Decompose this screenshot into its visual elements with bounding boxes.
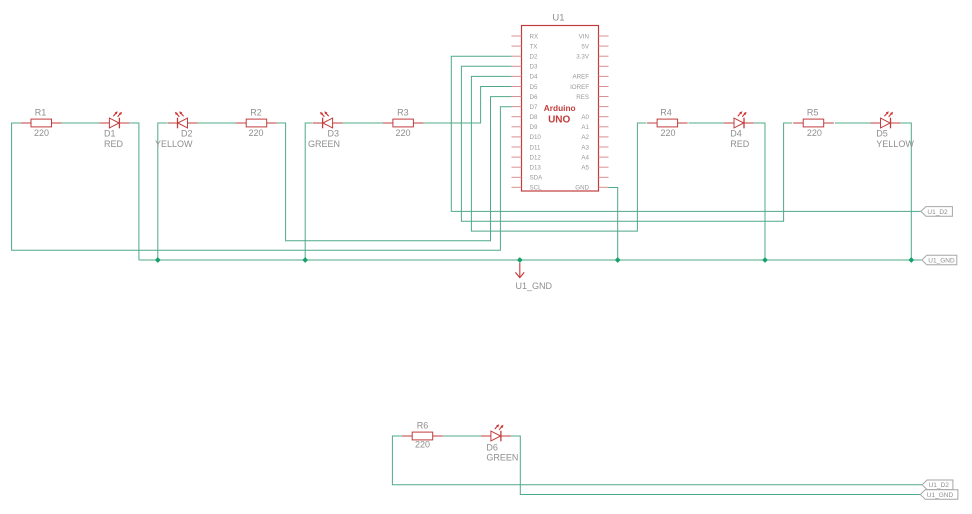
- wire D6 cathode to flag U1_GND: [510, 436, 920, 495]
- svg-text:220: 220: [415, 439, 430, 449]
- resistor R1: [21, 108, 62, 138]
- resistor R3: [383, 107, 424, 137]
- wire U1 GND pin to GND bus: [609, 188, 618, 261]
- net flag U1_D2 bottom right: [922, 480, 953, 490]
- svg-text:GND: GND: [575, 185, 589, 192]
- wire net D2 bottom: R6 left to flag U1_D2: [392, 436, 922, 485]
- svg-text:D11: D11: [530, 144, 541, 151]
- svg-text:D6: D6: [530, 94, 538, 101]
- LED D3 (GREEN): [308, 111, 343, 149]
- wire D3 anode to R3 left: [343, 122, 383, 124]
- svg-text:D3: D3: [530, 64, 538, 71]
- junction: U1 GND pin on GND bus: [615, 257, 621, 263]
- svg-text:D10: D10: [530, 134, 542, 141]
- wire R6 right to D6 anode: [443, 435, 481, 437]
- svg-text:RED: RED: [104, 139, 124, 149]
- svg-text:A0: A0: [581, 114, 589, 121]
- wire net D2: U1 pin D2 to flag U1_D2: [451, 56, 921, 211]
- wire GND bus: [139, 259, 921, 261]
- junction: GND symbol on GND bus: [517, 257, 523, 263]
- wire D1 cathode to GND bus: [129, 123, 139, 260]
- svg-text:R3: R3: [397, 107, 409, 117]
- svg-text:220: 220: [248, 128, 263, 138]
- wire D3 cathode to GND bus: [305, 123, 312, 260]
- svg-text:UNO: UNO: [548, 114, 570, 125]
- svg-text:D1: D1: [104, 129, 116, 139]
- svg-text:D4: D4: [530, 74, 538, 81]
- svg-text:YELLOW: YELLOW: [876, 139, 914, 149]
- svg-text:U1_GND: U1_GND: [927, 492, 954, 499]
- resistor R6: [402, 420, 443, 449]
- svg-text:RES: RES: [576, 94, 589, 101]
- svg-text:D7: D7: [530, 104, 538, 111]
- IC U1 Arduino UNO: [512, 12, 609, 191]
- svg-text:220: 220: [660, 128, 675, 138]
- svg-text:D2: D2: [530, 54, 538, 61]
- net flag U1_GND top right: [922, 255, 957, 265]
- svg-text:D9: D9: [530, 124, 538, 131]
- wire net D6: R2 right to U1 pin D6: [277, 97, 512, 241]
- junction: D4 cathode on GND bus: [762, 257, 768, 263]
- LED D1 (RED): [99, 111, 129, 149]
- svg-text:U1: U1: [552, 12, 564, 23]
- junction: D3 cathode on GND bus: [302, 257, 308, 263]
- svg-text:5V: 5V: [581, 43, 589, 50]
- svg-text:A4: A4: [581, 154, 589, 161]
- svg-text:A1: A1: [581, 124, 589, 131]
- LED D4 (RED): [724, 111, 754, 149]
- svg-text:D8: D8: [530, 114, 538, 121]
- wire R1 right to D1 anode: [61, 122, 99, 124]
- svg-text:D4: D4: [730, 129, 742, 139]
- LED D2 (YELLOW): [155, 111, 198, 149]
- wire net D7: R1 left to U1 pin D7: [12, 107, 512, 251]
- svg-text:R1: R1: [35, 108, 47, 118]
- svg-text:220: 220: [807, 128, 822, 138]
- svg-text:D3: D3: [328, 129, 340, 139]
- svg-text:220: 220: [395, 128, 410, 138]
- svg-text:D13: D13: [530, 165, 542, 172]
- svg-text:U1_D2: U1_D2: [927, 209, 948, 216]
- svg-text:D5: D5: [530, 84, 538, 91]
- svg-text:RX: RX: [530, 33, 539, 40]
- net flag U1_D2 top right: [921, 207, 953, 217]
- wire D5 cathode to GND bus: [900, 123, 911, 260]
- svg-text:A2: A2: [581, 134, 589, 141]
- svg-text:D2: D2: [181, 129, 193, 139]
- svg-text:R5: R5: [807, 107, 819, 117]
- svg-text:A5: A5: [581, 165, 589, 172]
- svg-text:D12: D12: [530, 154, 542, 161]
- wire R4 right to D4 anode: [689, 122, 725, 124]
- power symbol U1_GND (ground arrow): [515, 263, 552, 291]
- LED D6 (GREEN): [481, 424, 519, 463]
- wire net D5: R3 right to U1 pin D5: [424, 87, 512, 124]
- svg-text:D5: D5: [876, 129, 888, 139]
- svg-text:TX: TX: [530, 43, 538, 50]
- svg-text:SCL: SCL: [530, 185, 543, 192]
- resistor R2: [236, 107, 277, 137]
- wire net D3: U1 pin D3 to R5 left: [461, 66, 792, 221]
- resistor R4: [647, 107, 688, 138]
- LED D5 (YELLOW): [871, 111, 915, 149]
- svg-text:220: 220: [34, 128, 49, 138]
- svg-text:SDA: SDA: [530, 175, 544, 182]
- junction: D2 cathode on GND bus: [155, 257, 161, 263]
- svg-text:AREF: AREF: [572, 74, 589, 81]
- svg-text:U1_GND: U1_GND: [516, 281, 553, 291]
- svg-text:RED: RED: [730, 139, 750, 149]
- wire R5 right to D5 anode: [835, 122, 871, 124]
- wire D4 cathode to GND bus: [754, 123, 765, 260]
- resistor R5: [793, 107, 834, 138]
- junction: D5 cathode on GND bus: [908, 257, 914, 263]
- svg-text:IOREF: IOREF: [570, 84, 589, 91]
- svg-text:3.3V: 3.3V: [576, 54, 590, 61]
- svg-text:D6: D6: [486, 442, 498, 452]
- svg-text:R4: R4: [660, 107, 672, 117]
- svg-text:R2: R2: [250, 107, 262, 117]
- svg-text:GREEN: GREEN: [308, 139, 340, 149]
- svg-text:GREEN: GREEN: [486, 453, 518, 463]
- svg-text:VIN: VIN: [579, 33, 589, 40]
- wire D2 anode to R2 left: [198, 122, 237, 124]
- svg-text:R6: R6: [417, 420, 429, 430]
- svg-text:A3: A3: [581, 144, 589, 151]
- wire net D4: U1 pin D4 to R4 left: [471, 76, 646, 231]
- svg-text:YELLOW: YELLOW: [155, 139, 193, 149]
- net flag U1_GND bottom right: [920, 490, 958, 500]
- svg-text:U1_D2: U1_D2: [929, 482, 950, 489]
- svg-text:U1_GND: U1_GND: [928, 257, 955, 264]
- wire D2 cathode to GND bus: [158, 123, 168, 260]
- svg-text:Arduino: Arduino: [544, 103, 576, 113]
